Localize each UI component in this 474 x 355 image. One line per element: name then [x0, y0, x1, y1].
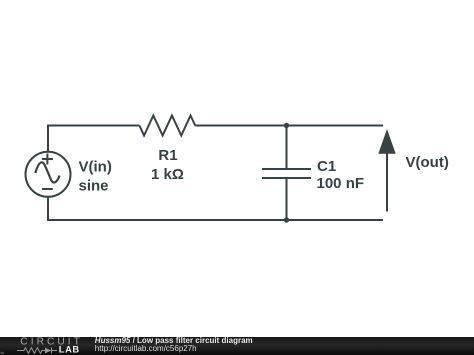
label C1	[317, 158, 336, 175]
svg-text:sine: sine	[79, 177, 109, 194]
node junction dot top	[284, 123, 289, 128]
footer title text	[95, 336, 253, 345]
wire: top-left horizontal	[47, 125, 139, 127]
svg-text:http://circuitlab.com/c56p27h: http://circuitlab.com/c56p27h	[95, 344, 197, 353]
wire: bottom horizontal	[47, 219, 383, 221]
label sine	[79, 177, 109, 194]
wire: resistor to output node	[195, 125, 383, 127]
voltage source V1 circle	[26, 152, 71, 197]
voltage source V1 plus sign	[42, 154, 53, 165]
svg-text:1 kΩ: 1 kΩ	[151, 166, 184, 183]
label V(out)	[406, 154, 449, 171]
resistor R1	[139, 116, 195, 136]
svg-text:C1: C1	[317, 158, 336, 175]
svg-text:100 nF: 100 nF	[317, 175, 365, 192]
voltage probe V(out) arrowhead	[378, 129, 395, 154]
CircuitLab logo LAB text	[59, 344, 80, 354]
footer url text	[95, 344, 197, 353]
voltage source V1 sine symbol	[35, 162, 59, 182]
CircuitLab logo CIRCUIT text	[20, 337, 83, 348]
label V(in)	[79, 158, 112, 175]
voltage source V1 minus sign	[42, 188, 53, 190]
capacitor C1 top stub wire	[286, 126, 288, 169]
label R1	[158, 147, 177, 164]
CircuitLab logo waveform	[17, 348, 57, 354]
label 100 nF	[317, 175, 365, 192]
footer corner mark	[1, 352, 5, 354]
svg-text:V(out): V(out)	[406, 154, 449, 171]
voltage probe V(out) arrow shaft	[386, 153, 388, 212]
label 1 kOhm	[151, 166, 184, 183]
svg-text:R1: R1	[158, 147, 177, 164]
capacitor C1 plates	[262, 169, 311, 178]
capacitor C1 bottom stub wire	[286, 179, 288, 221]
svg-text:V(in): V(in)	[79, 158, 112, 175]
footer bar	[0, 337, 474, 355]
svg-text:LAB: LAB	[59, 344, 80, 354]
wire: source bottom stub	[47, 197, 49, 221]
node junction dot bottom	[284, 217, 289, 222]
wire: source top stub	[47, 125, 49, 152]
